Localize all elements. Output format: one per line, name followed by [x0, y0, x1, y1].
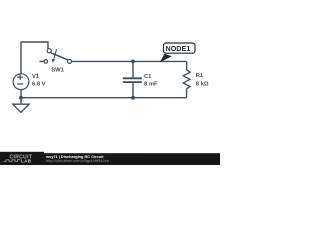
svg-text:NODE1: NODE1 — [166, 44, 191, 53]
node junction bottom C1 tap — [131, 96, 135, 100]
svg-text:C1: C1 — [144, 74, 152, 80]
wire SW1 open stub — [40, 60, 45, 62]
svg-text:8 mF: 8 mF — [144, 81, 158, 87]
wire C1 bottom lead — [132, 82, 134, 97]
wire R1 bottom lead — [186, 89, 188, 98]
node NODE1 flag box — [164, 43, 196, 53]
node NODE1 flag pointer — [160, 54, 172, 63]
svg-text:http://circuitlab.com/c4qp499f: http://circuitlab.com/c4qp499f352cn — [46, 158, 109, 163]
wire ground stem — [20, 98, 22, 104]
wire C1 top lead — [132, 61, 134, 78]
wire bottom rail — [21, 97, 187, 99]
wire SW1 pole to R1 top — [71, 60, 187, 62]
voltage source V1 — [13, 74, 29, 90]
svg-text:6.8 V: 6.8 V — [32, 81, 46, 87]
node junction top C1 tap — [131, 60, 135, 64]
switch SW1 — [44, 49, 72, 64]
wire V1- to bottom rail — [20, 89, 22, 98]
watermark bar — [0, 153, 220, 165]
watermark logo waveform — [3, 160, 20, 162]
svg-text:SW1: SW1 — [51, 68, 64, 74]
wire R1 top lead — [186, 61, 188, 70]
ground — [13, 104, 30, 112]
svg-text:LAB: LAB — [21, 158, 32, 163]
svg-text:V1: V1 — [32, 74, 40, 80]
capacitor C1 — [123, 78, 142, 82]
svg-text:8 kΩ: 8 kΩ — [196, 81, 209, 87]
node junction V1 ground — [19, 96, 23, 100]
wire V1+ to SW1 top throw — [21, 42, 48, 75]
svg-text:R1: R1 — [196, 73, 204, 79]
resistor R1 — [183, 70, 190, 89]
